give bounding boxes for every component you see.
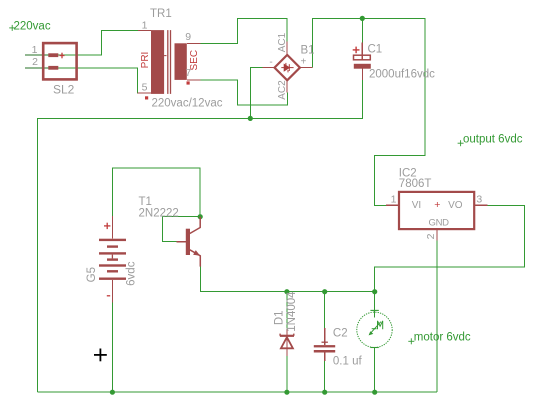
G5 plate short 2: [107, 258, 118, 260]
TR1 secondary winding bar: [175, 43, 187, 80]
voltage regulator IC2: [386, 168, 487, 241]
G5 plate long 1: [99, 239, 126, 241]
SL2 polarity mark: [60, 53, 65, 59]
svg-text:output 6vdc: output 6vdc: [463, 134, 523, 146]
TR1 pin 7 lead: [187, 79, 201, 81]
svg-text:2: 2: [425, 233, 437, 239]
T1 emitter lead: [190, 250, 201, 267]
svg-text:VO: VO: [448, 200, 463, 211]
G5 cell link stub: [111, 255, 113, 259]
B1 internal diode glyph: [281, 63, 293, 73]
wire net B1 plus to C1 top and IC2 VI: [313, 18, 425, 205]
TR1 pin 1 lead: [138, 29, 151, 31]
motor bottom pin tick: [370, 347, 378, 349]
svg-text:+: +: [434, 199, 440, 211]
SL2 contact bar pin 2: [48, 66, 58, 70]
T1 collector lead: [190, 217, 200, 234]
wire net battery plus to T1 collector node: [112, 168, 200, 217]
svg-text:T1: T1: [139, 196, 152, 208]
G5 minus mark: [107, 295, 110, 297]
svg-text:TR1: TR1: [150, 8, 172, 20]
C1 bottom lead: [361, 69, 363, 80]
svg-text:-: -: [269, 57, 272, 68]
TR1 pin 5 lead: [138, 92, 152, 94]
svg-text:7: 7: [185, 67, 191, 79]
svg-text:7806T: 7806T: [399, 178, 432, 190]
capacitor C1: [353, 42, 435, 80]
D1 bottom lead: [286, 348, 288, 356]
SL2 contact bar pin 1: [48, 53, 58, 57]
wire net TR1-9 to B1 AC1: [200, 18, 286, 43]
svg-text:1: 1: [391, 193, 397, 205]
C1 negative plate: [354, 64, 371, 69]
TR1 origin dot left: [145, 96, 148, 99]
junction C1 top: [360, 16, 365, 21]
C1 positive plate (hollow): [354, 55, 371, 60]
svg-text:1: 1: [32, 44, 38, 56]
D1 cathode bar serifs: [279, 334, 281, 336]
motor top pin tick: [370, 309, 378, 311]
C2 plate 1: [314, 345, 335, 347]
motor M: [357, 310, 392, 347]
junction battery bottom rail: [110, 390, 115, 395]
svg-text:3: 3: [476, 193, 482, 205]
junction C2 top node: [322, 289, 327, 294]
wire net B1 minus to ground rail: [250, 68, 262, 119]
junction motor top node: [372, 289, 377, 294]
TR1 origin dot right: [187, 81, 190, 84]
label output 6vdc: [458, 134, 523, 147]
battery G5: [86, 216, 137, 303]
svg-text:PRI: PRI: [140, 52, 151, 69]
C1 top lead: [361, 42, 363, 60]
transistor T1: [139, 196, 201, 267]
wire bottom ground rail: [38, 391, 438, 393]
G5 bottom lead: [111, 280, 113, 303]
svg-text:5: 5: [142, 82, 148, 94]
svg-text:GND: GND: [429, 218, 450, 229]
wire C1 top stub: [361, 18, 363, 42]
G5 plate short 3: [107, 270, 118, 272]
D1 cathode bar: [280, 335, 294, 337]
G5 plate long 2: [99, 252, 126, 254]
wire net C1 bottom / left ground rail: [38, 80, 363, 392]
wire C2 top stub: [324, 292, 326, 328]
T1 base lead: [176, 241, 185, 243]
wire C2 bottom stub: [324, 361, 326, 392]
wire net IC2 VO to motor node: [375, 205, 525, 291]
D1 anode triangle: [281, 337, 293, 348]
B1 plus lead: [300, 67, 313, 69]
junction D1 bottom rail: [284, 390, 289, 395]
svg-text:6vdc: 6vdc: [125, 261, 137, 286]
IC2 body: [399, 192, 474, 229]
diode D1: [274, 291, 299, 356]
SL2 body: [43, 43, 76, 79]
TR1 center tick: [164, 55, 166, 57]
wire battery minus down: [111, 303, 113, 393]
svg-text:220vac: 220vac: [14, 20, 51, 32]
wire net IC2 GND down: [436, 240, 438, 392]
svg-text:SL2: SL2: [53, 83, 75, 97]
C2 plus mark tick: [322, 341, 328, 343]
junction B1 minus rail: [248, 116, 253, 121]
TR1 core line 2: [170, 30, 172, 94]
junction D1 top node: [284, 289, 289, 294]
junction motor bottom rail: [372, 390, 377, 395]
svg-text:AC1: AC1: [277, 32, 288, 52]
C2 bottom lead: [324, 353, 326, 362]
svg-text:+: +: [300, 57, 306, 68]
svg-text:2: 2: [32, 56, 38, 68]
wire D1 top stub: [286, 292, 288, 330]
connector SL2: [25, 43, 77, 96]
svg-text:C1: C1: [368, 44, 383, 56]
transformer TR1: [138, 8, 223, 109]
G5 plus mark: [104, 223, 110, 229]
motor circle: [357, 312, 392, 347]
B1 AC2 lead: [286, 80, 288, 93]
C1 plus mark: [353, 47, 360, 54]
wire net T1 emitter to motor node: [200, 267, 374, 292]
IC2 pin 3 lead: [474, 204, 487, 206]
T1 base bar: [186, 229, 190, 255]
capacitor C2: [314, 328, 363, 368]
SL2 pin 2 lead: [25, 67, 58, 69]
TR1 core line 1: [167, 30, 169, 94]
wire net TR1-7 to B1 AC2: [200, 80, 287, 105]
C2 top lead: [324, 328, 326, 345]
bridge rectifier B1: [263, 32, 315, 99]
svg-text:B1: B1: [301, 45, 315, 57]
wire net SL2-2 to TR1-5: [47, 68, 151, 93]
G5 top lead: [111, 216, 113, 239]
svg-text:0.1 uf: 0.1 uf: [333, 356, 363, 368]
TR1 primary winding bar: [151, 30, 164, 94]
svg-text:motor 6vdc: motor 6vdc: [414, 331, 471, 343]
svg-text:2N2222: 2N2222: [139, 208, 179, 220]
wire motor top stub: [374, 292, 376, 318]
svg-text:220vac/12vac: 220vac/12vac: [152, 98, 223, 110]
B1 AC1 lead: [286, 42, 288, 56]
svg-text:AC2: AC2: [277, 80, 288, 100]
IC2 pin 2 lead: [436, 230, 438, 240]
label motor 6vdc: [408, 331, 471, 344]
T1 emitter arrow: [194, 251, 200, 256]
junction C2 bottom rail: [322, 390, 327, 395]
svg-text:1N4004: 1N4004: [286, 291, 298, 332]
svg-text:VI: VI: [412, 200, 421, 211]
svg-text:C2: C2: [333, 328, 348, 340]
wire net T1 base loop: [163, 217, 201, 242]
black origin cross: [94, 349, 107, 362]
G5 plate long 4: [99, 278, 126, 280]
svg-text:2000uf16vdc: 2000uf16vdc: [369, 69, 435, 81]
svg-text:1: 1: [142, 19, 148, 31]
motor arrow: [369, 322, 381, 336]
junction T1 collector node: [198, 214, 203, 219]
svg-text:G5: G5: [86, 267, 98, 282]
TR1 pin 9 lead: [187, 42, 201, 44]
svg-text:D1: D1: [274, 310, 286, 325]
label 220vac: [9, 20, 51, 32]
B1 minus lead: [263, 67, 276, 69]
wire motor bottom stub: [374, 347, 376, 392]
B1 diamond body: [275, 55, 300, 80]
IC2 pin 1 lead: [386, 204, 399, 206]
D1 lead through: [286, 330, 288, 357]
wire D1 bottom stub: [286, 356, 288, 392]
SL2 pin 1 lead: [25, 54, 58, 56]
G5 plate long 3: [99, 264, 126, 266]
svg-text:9: 9: [185, 31, 191, 43]
motor M letter: [378, 321, 383, 329]
G5 plate short 1: [107, 245, 118, 247]
wire net SL2-1 to TR1-1: [47, 30, 138, 55]
C2 plate 2: [314, 350, 335, 353]
